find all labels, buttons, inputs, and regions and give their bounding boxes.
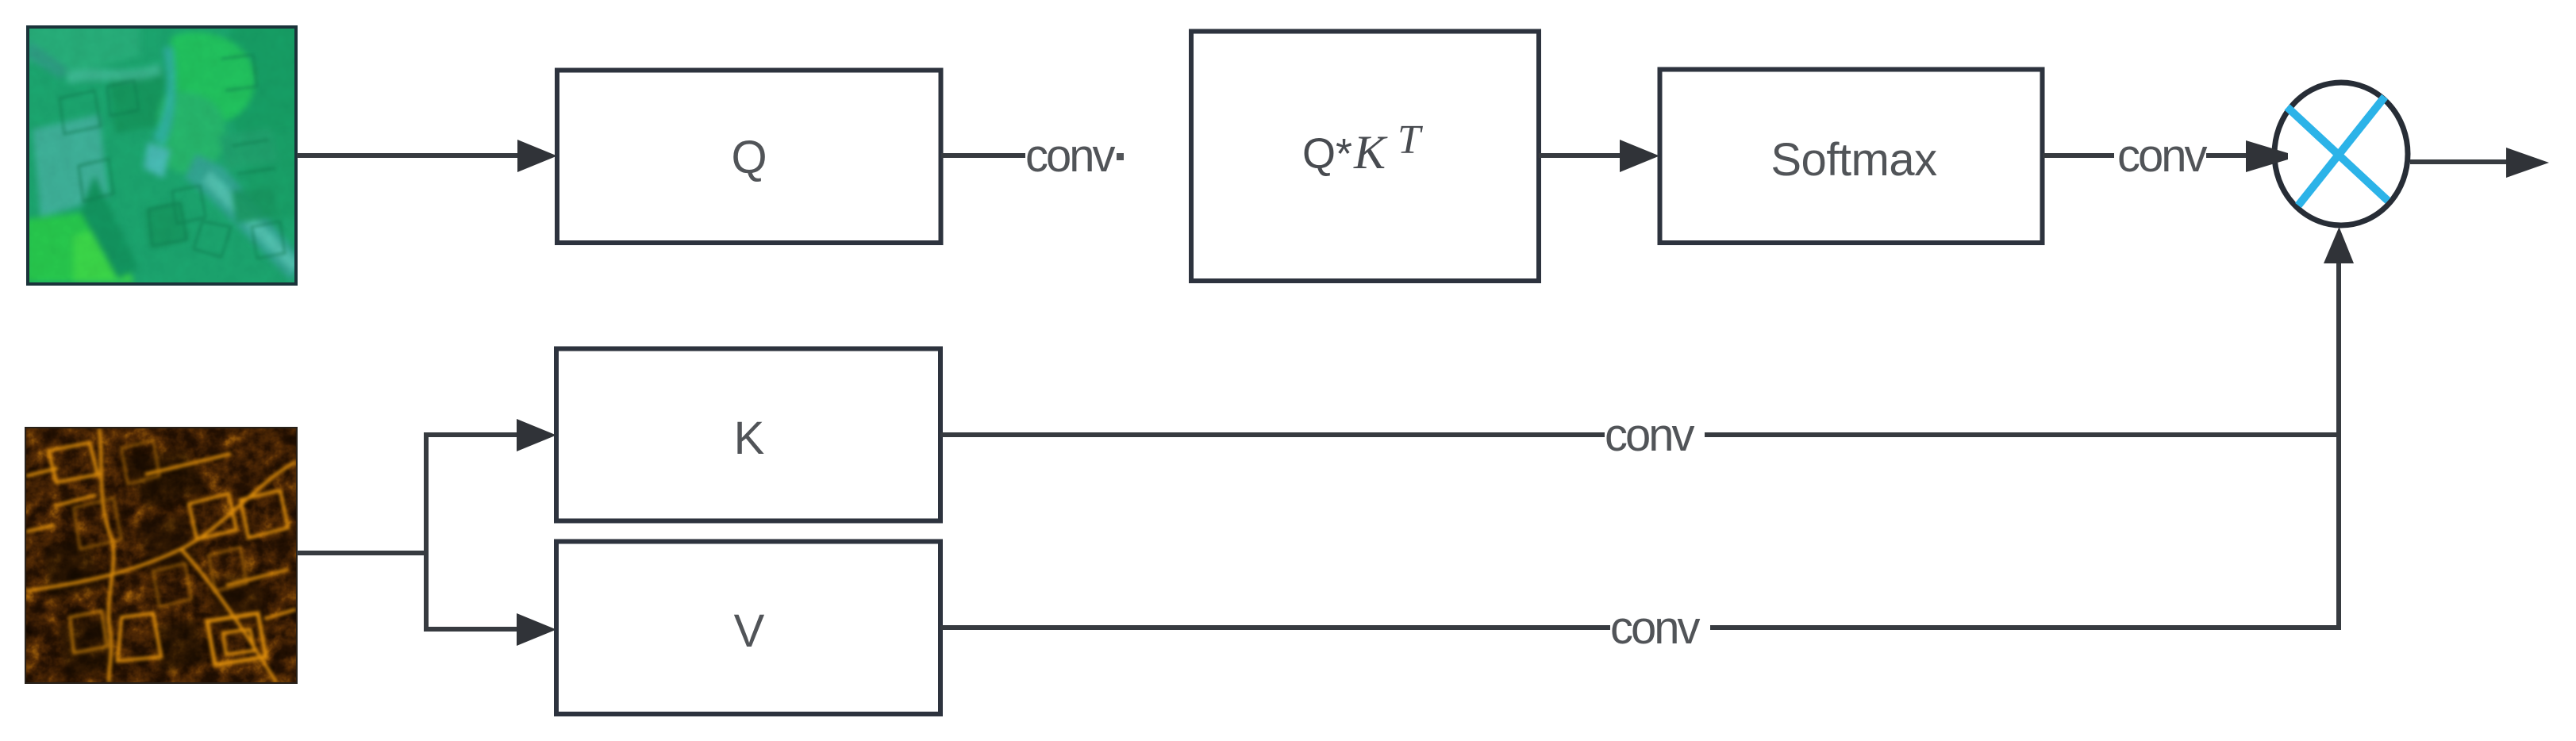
svg-text:conv: conv	[1025, 130, 1116, 182]
vertical wire up into multiplier	[2324, 227, 2354, 630]
wire: DEM image to Q box	[297, 140, 557, 172]
wire + label conv (V output to multiplier column)	[940, 602, 2339, 654]
svg-text:K: K	[1353, 126, 1388, 179]
input optical/DEM image (green)	[25, 25, 303, 286]
box Q*K^T	[1191, 32, 1539, 282]
wire + label conv (K output to multiplier column)	[940, 409, 2339, 461]
arrow: branch to V	[426, 613, 556, 646]
wire + label conv (Softmax output)	[2043, 130, 2249, 182]
svg-text:Q*: Q*	[1302, 130, 1352, 178]
arrow: Q*K^T to Softmax	[1539, 140, 1659, 172]
output arrow	[2410, 148, 2549, 178]
multiplier circle with blue X	[2274, 83, 2408, 225]
wire + label conv (Q output)	[941, 130, 1124, 182]
svg-text:Softmax: Softmax	[1771, 134, 1937, 186]
svg-text:conv: conv	[1605, 409, 1695, 461]
svg-text:V: V	[734, 605, 765, 657]
svg-text:K: K	[734, 413, 765, 464]
wire: SAR image to branch point	[297, 432, 429, 632]
box K	[556, 349, 940, 521]
box Q	[557, 71, 941, 244]
svg-text:Q: Q	[731, 132, 767, 183]
box Softmax	[1660, 70, 2043, 244]
arrow: branch to K	[426, 419, 556, 451]
box V	[556, 542, 940, 715]
input SAR image (orange)	[25, 427, 298, 684]
svg-text:conv: conv	[2117, 130, 2208, 182]
svg-text:T: T	[1398, 117, 1423, 163]
arrowhead into multiplier (from Softmax conv)	[2246, 140, 2288, 172]
svg-text:conv: conv	[1610, 602, 1701, 654]
